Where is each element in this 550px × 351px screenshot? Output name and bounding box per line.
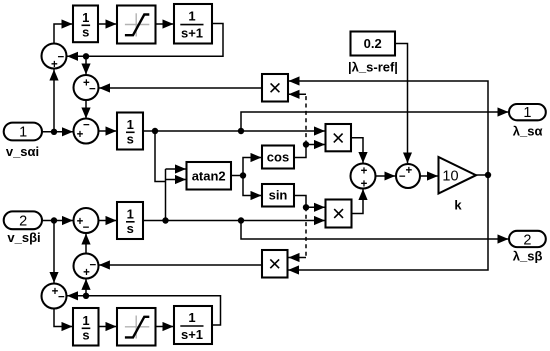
wire beta branch to output port 2 (241, 221, 509, 240)
wire 1/s to saturation (beta) (99, 326, 117, 328)
wire product mid-beta out to sum PP bottom (351, 189, 363, 214)
feedback wire 1/(s+1) out looping to sum A1 (alpha) (67, 24, 223, 57)
saturation block (beta) (117, 308, 156, 346)
wire junction up to sum B2 bottom (85, 279, 87, 296)
input port 2 (4, 211, 42, 229)
svg-text:s+1: s+1 (181, 327, 203, 342)
junction node beta line (atan2 branch) (162, 217, 168, 223)
wire product fbB out to sum B2 (99, 264, 262, 266)
sin block (262, 184, 294, 207)
product mid-beta (326, 200, 352, 228)
svg-text:1: 1 (82, 313, 89, 328)
sum A3 (alpha input sum) (74, 119, 99, 144)
svg-text:−: − (89, 83, 96, 95)
svg-text:s+1: s+1 (181, 26, 203, 41)
svg-text:+: + (77, 129, 84, 141)
product fbB (feedback multiplier beta) (262, 250, 288, 278)
wire junction down to sum A2 (alpha) (85, 56, 87, 74)
junction node atan2 out (240, 172, 246, 178)
dashed wire sin junction down to product fbB (305, 207, 307, 257)
svg-text:+: + (361, 179, 368, 191)
wire sum A3 to integrator (alpha main) (99, 130, 117, 132)
transfer fcn 1/(s+1) (alpha) (174, 4, 212, 44)
wire 0.2 to sum MP (395, 44, 408, 164)
sum A1 (alpha outer) (42, 44, 67, 71)
svg-text:1: 1 (19, 125, 27, 141)
sum A2 (alpha feedback corr) (74, 75, 99, 100)
svg-text:λ_sβ: λ_sβ (513, 249, 543, 264)
svg-text:+: + (405, 165, 412, 177)
dashed wire cos junction up to product fbA (305, 94, 307, 144)
wire saturation to 1/(s+1) (beta) (156, 326, 174, 328)
product mid-alpha (326, 124, 352, 151)
svg-text:s: s (82, 25, 89, 40)
wire gain feedback down to product fbB input2 (288, 175, 488, 270)
sum PP (plus plus) (351, 164, 376, 191)
wire product mid-alpha out to sum PP (351, 138, 363, 163)
sum B2 (beta feedback corr) (74, 254, 99, 280)
wire alpha down to atan2 input (155, 131, 166, 182)
svg-text:atan2: atan2 (192, 169, 226, 184)
wire stub into product fbB input1 (289, 257, 307, 259)
wire sum B2 up to sum B1 (85, 234, 87, 254)
wire 1/s to saturation (alpha) (98, 23, 117, 25)
wire beta up to atan2 input (shared vertical) (165, 169, 167, 221)
sum B3 (beta outer) (42, 284, 67, 309)
svg-text:1: 1 (188, 9, 195, 24)
svg-text:−: − (83, 120, 90, 132)
svg-text:v_sαi: v_sαi (6, 144, 39, 159)
product fbA (feedback multiplier alpha) (262, 74, 288, 102)
svg-text:λ_sα: λ_sα (513, 124, 543, 139)
wire port2 to sum B1 (43, 220, 74, 222)
svg-text:sin: sin (269, 188, 288, 203)
wire gain feedback to product fbA input1 (289, 81, 489, 175)
wire stub to atan2 input 2 (166, 179, 187, 181)
junction node alpha line (output branch) (238, 128, 244, 134)
cos block (262, 146, 294, 169)
svg-text:+: + (83, 267, 90, 279)
wire sum A2 down to sum A3 (85, 100, 87, 119)
input port 1 (4, 123, 42, 141)
integrator 1/s (alpha compensator) (73, 6, 98, 43)
wire to sin (243, 176, 262, 196)
wire junction up to sum A1 (53, 70, 55, 132)
junction node on port2 wire (51, 217, 57, 223)
svg-text:−: − (57, 52, 64, 64)
wire sin out to junction (294, 196, 306, 208)
transfer fcn 1/(s+1) (beta) (174, 306, 212, 344)
svg-text:1: 1 (127, 207, 134, 222)
junction node sin (303, 204, 309, 210)
wire sum MP to gain (420, 175, 438, 177)
wire from sum A1 top to integrator 1/s (alpha comp loop) (54, 24, 73, 44)
wire to cos (243, 158, 262, 176)
wire atan2 output (231, 175, 243, 177)
output port 1 (509, 104, 546, 121)
junction node on beta feedback wire (83, 293, 89, 299)
svg-text:−: − (90, 260, 97, 272)
svg-text:cos: cos (267, 150, 289, 165)
svg-text:2: 2 (523, 232, 531, 248)
svg-text:|λ_s-ref|: |λ_s-ref| (348, 60, 398, 75)
svg-text:−: − (83, 222, 90, 234)
wire stub to atan2 input 1 (166, 168, 187, 170)
wire sum B3 down to integrator 1/s (beta comp) (54, 309, 73, 327)
integrator 1/s (beta compensator) (73, 308, 99, 346)
svg-text:1: 1 (523, 105, 531, 121)
junction node cos (303, 141, 309, 147)
feedback wire 1/(s+1) beta looping to sum B3 (67, 296, 221, 325)
svg-text:s: s (127, 132, 134, 147)
integrator 1/s (beta main) (117, 202, 143, 239)
integrator 1/s (alpha main) (117, 113, 143, 150)
svg-text:−: − (58, 292, 65, 304)
wire gain out (476, 174, 488, 176)
svg-text:1: 1 (127, 117, 134, 132)
gain k triangle (439, 157, 477, 194)
junction node on alpha feedback wire (83, 53, 89, 59)
wire lambda-alpha line to product mid-alpha (143, 130, 325, 132)
wire cos out to junction (294, 145, 306, 158)
junction node beta line (output branch) (238, 217, 244, 223)
svg-text:1: 1 (188, 310, 195, 325)
junction node on port1 wire (51, 129, 57, 135)
wire lambda-beta line to product mid-beta (143, 220, 325, 222)
constant 0.2 block (351, 32, 396, 56)
wire saturation to 1/(s+1) (alpha) (156, 23, 174, 25)
svg-text:2: 2 (19, 214, 27, 230)
wire sin junction to product mid-beta in1 (306, 206, 325, 208)
wire sum PP to sum MP (376, 175, 396, 177)
svg-text:+: + (361, 166, 368, 178)
wire sum B1 to integrator beta main (99, 220, 117, 222)
svg-text:s: s (127, 221, 134, 236)
wire stub into product fbA input2 (289, 93, 307, 95)
svg-text:v_sβi: v_sβi (7, 230, 40, 245)
svg-text:0.2: 0.2 (364, 36, 382, 51)
wire product fbA out to sum A2 (99, 87, 262, 89)
saturation block (alpha) (117, 6, 156, 44)
svg-text:−: − (399, 171, 406, 183)
sum MP (minus plus) (396, 164, 420, 188)
wire cos junction to product mid-alpha in2 (306, 144, 325, 146)
wire alpha branch to output port 1 (241, 112, 509, 131)
sum B1 (beta input sum) (74, 208, 99, 234)
svg-text:k: k (454, 198, 462, 213)
output port 2 (509, 231, 546, 249)
svg-text:+: + (51, 59, 58, 71)
junction node alpha line (atan2 branch) (152, 128, 158, 134)
wire port1 to sum A3 (43, 131, 74, 133)
svg-text:s: s (82, 328, 89, 343)
svg-text:1: 1 (82, 10, 89, 25)
junction node gain out (485, 172, 491, 178)
svg-text:10: 10 (442, 169, 458, 185)
atan2 block (187, 162, 232, 190)
wire junction down to sum B3 (53, 221, 55, 283)
